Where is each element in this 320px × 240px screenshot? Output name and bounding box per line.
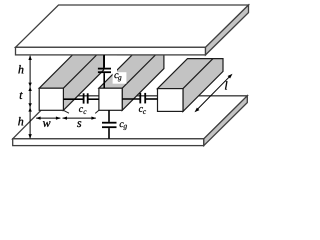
capacitor cg bottom: plate 1 xyxy=(102,122,117,124)
bar3 prism silhouette (top + right faces, far end visible) xyxy=(158,59,224,112)
bar1 corner tick xyxy=(63,110,69,113)
capacitor cc 2: left wire xyxy=(122,98,140,100)
resonator bar 1 (left) xyxy=(39,49,103,114)
capacitor cg bottom: wire xyxy=(108,110,110,122)
label cg top main xyxy=(114,73,118,78)
resonator bar 2 (middle) xyxy=(95,49,164,114)
bar2 edge between top and side faces xyxy=(122,49,162,89)
dimension chain line h/t/h xyxy=(29,56,31,139)
top ground plane (plate) xyxy=(16,5,249,55)
capacitor cg top: wire xyxy=(103,55,105,68)
white mask behind top cg label xyxy=(113,72,127,84)
capacitor cc 1: plate 2 xyxy=(87,93,89,103)
bar1 edge between top and side faces xyxy=(63,49,103,89)
label cc1 main xyxy=(79,107,83,112)
label cc2 sub xyxy=(143,110,146,114)
capacitor cg bottom: plate 2 xyxy=(102,126,117,128)
bar3 edge between top and side faces xyxy=(183,59,213,89)
label l xyxy=(225,81,227,89)
capacitor cc 2: plate 2 xyxy=(144,93,146,104)
arrowhead down at bottom plate xyxy=(28,134,31,139)
bowtie arrows at bar top xyxy=(28,83,31,87)
dimension s xyxy=(63,117,96,119)
bottom plate right side face xyxy=(204,96,248,146)
bottom plate top face xyxy=(13,96,248,139)
label cg bot sub xyxy=(123,125,127,130)
dimension w xyxy=(36,117,60,119)
label s xyxy=(77,121,81,127)
capacitor cg top: lower wire xyxy=(103,73,105,88)
bar1 prism silhouette (top + right faces) xyxy=(39,49,103,111)
bar3 front face xyxy=(158,89,184,112)
bowtie arrows at bar bottom xyxy=(28,103,31,107)
top plate right side face xyxy=(206,5,249,55)
label w xyxy=(43,121,51,127)
dimension l arrow xyxy=(197,76,231,110)
label cg bot main xyxy=(120,122,124,127)
capacitor cc 2: plate 1 xyxy=(139,93,141,104)
top plate top face xyxy=(16,5,249,47)
label h bottom xyxy=(18,117,23,125)
capacitor cc 1: left wire xyxy=(63,98,83,100)
label t xyxy=(20,92,23,99)
label cg top sub xyxy=(118,76,122,81)
white mask behind top cg capacitor xyxy=(104,56,117,74)
bar2 corner tick xyxy=(95,110,99,113)
label cc1 sub xyxy=(84,110,87,114)
label cc2 main xyxy=(139,107,143,112)
label h top xyxy=(18,65,23,73)
capacitor cc 1: right wire xyxy=(88,98,99,100)
capacitor cc 2: right wire xyxy=(146,98,158,100)
bar2 prism silhouette (top + right faces) xyxy=(99,49,164,111)
capacitor cg top: plate 1 xyxy=(98,68,111,70)
bar2 front face xyxy=(99,88,122,110)
capacitor cg bottom: lower wire xyxy=(108,128,110,139)
arrowhead up at top plate xyxy=(28,55,31,60)
capacitor cg top: plate 2 xyxy=(98,71,111,73)
bottom plate front face xyxy=(13,139,204,146)
bar1 front face xyxy=(39,88,63,110)
bottom ground plane (plate) xyxy=(13,96,248,146)
resonator bar 3 (right) xyxy=(158,59,224,112)
capacitor cc 1: plate 1 xyxy=(83,93,85,103)
top plate front face xyxy=(16,47,206,55)
